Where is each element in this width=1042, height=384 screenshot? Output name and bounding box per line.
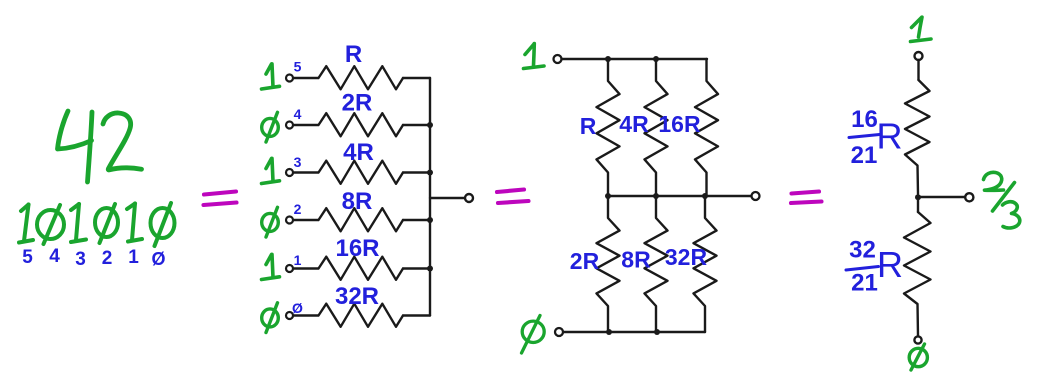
output terminal (circuit 3): [965, 193, 973, 201]
junction dot mid rail R/2R: [605, 193, 611, 199]
output bus wire (circuit 1): [429, 78, 431, 316]
binary bit2 digit 0 (slashed): [95, 204, 118, 243]
resistor 4R (circuit 2): [645, 59, 668, 196]
wire top terminal to resistor 16/21R: [917, 60, 919, 80]
fraction 32/21 bar: [846, 267, 879, 271]
junction dot bus row 3: [427, 170, 433, 176]
svg-text:2: 2: [102, 248, 113, 269]
input terminal pin &#216;: [286, 312, 293, 319]
fraction 16/21 numerator: [851, 106, 878, 133]
label R upper (circuit 3): [877, 116, 903, 157]
resistor 2R (circuit 2): [597, 196, 620, 332]
wire resistor 32R to output bus: [403, 314, 430, 316]
wire pin 3 to resistor 4R: [293, 171, 318, 173]
wire resistor 2R to output bus: [403, 124, 430, 126]
junction dot output node (circuit 3): [915, 194, 921, 200]
label 16R: [335, 235, 379, 262]
resistor 32/21 R: [904, 212, 931, 336]
bit index label 5: [22, 247, 33, 268]
svg-text:Ø: Ø: [292, 300, 303, 316]
label 16R (circuit 2): [658, 111, 701, 137]
bottom rail wire (circuit 2): [563, 331, 705, 333]
binary bit5 digit 1: [19, 205, 33, 243]
svg-text:16R: 16R: [658, 111, 701, 137]
resistor 8R (circuit 2): [645, 196, 668, 332]
bottom terminal (circuit 2): [555, 328, 563, 336]
resistor R (circuit 2): [597, 59, 620, 196]
wire resistor R to output bus: [403, 77, 430, 79]
wire output node to resistor 32/21R: [917, 197, 919, 212]
resistor 16R (circuit 2): [695, 59, 718, 196]
label 32R (circuit 2): [665, 244, 708, 270]
equals sign 1: [204, 192, 237, 206]
junction dot mid rail 16R/32R: [702, 193, 708, 199]
svg-text:R: R: [877, 116, 903, 157]
junction dot bus row 2: [427, 217, 433, 223]
bottom terminal (circuit 3): [914, 336, 921, 343]
equals sign 2: [497, 190, 529, 204]
resistor 8R: [319, 208, 404, 231]
label 4R: [343, 139, 374, 166]
input terminal pin 3: [286, 169, 293, 176]
wire resistor 8R to output bus: [403, 219, 430, 221]
resistor 32R (circuit 2): [694, 196, 717, 332]
label R lower (circuit 3): [877, 244, 903, 285]
bit index label 1: [128, 247, 139, 268]
svg-text:32R: 32R: [665, 244, 708, 270]
input terminal pin 4: [286, 122, 293, 129]
node 1 label (circuit 3): [911, 17, 932, 41]
fraction 32/21 numerator: [849, 237, 876, 264]
output terminal (circuit 2): [752, 192, 760, 200]
svg-text:4: 4: [49, 246, 60, 267]
decimal value 42 (green handwriting): [58, 111, 142, 182]
svg-text:2R: 2R: [342, 90, 373, 117]
bit index label 3: [75, 249, 86, 270]
bit index label 0: [151, 249, 165, 269]
label 4R (circuit 2): [619, 111, 649, 137]
svg-text:R: R: [580, 113, 597, 139]
junction dot bus row 4: [427, 122, 433, 128]
top terminal (circuit 2): [554, 55, 562, 63]
binary bit1 digit 1: [127, 204, 142, 242]
svg-text:32R: 32R: [335, 283, 379, 310]
pin number 1: [294, 252, 302, 268]
node 1 label (circuit 2): [524, 44, 545, 69]
svg-text:21: 21: [851, 142, 878, 169]
bit index label 2: [102, 248, 113, 269]
junction dot bottom rail 2R: [606, 329, 612, 335]
bit index label 4: [49, 246, 60, 267]
input bit label 1 (row pin 3): [262, 158, 280, 183]
wire resistor 16R to output bus: [403, 267, 430, 269]
wire pin 1 to resistor 16R: [293, 267, 318, 269]
top rail wire (circuit 2): [562, 58, 708, 60]
wire pin 4 to resistor 2R: [293, 124, 318, 126]
svg-text:8R: 8R: [621, 247, 651, 273]
resistor 16/21 R: [905, 80, 930, 194]
pin number 5: [294, 59, 302, 75]
output wire (circuit 1): [430, 197, 465, 199]
svg-text:21: 21: [851, 270, 878, 297]
fraction 16/21 denominator: [851, 142, 878, 169]
svg-text:2: 2: [294, 201, 302, 217]
output value 2/3 (green): [984, 172, 1020, 228]
svg-text:Ø: Ø: [151, 249, 165, 269]
svg-text:4: 4: [294, 106, 302, 122]
middle rail wire (circuit 2): [608, 195, 751, 197]
input bit label 0 (row pin &#216;): [262, 303, 279, 333]
label 8R (circuit 2): [621, 247, 651, 273]
wire resistor 4R to output bus: [403, 171, 430, 173]
resistor 2R: [319, 113, 404, 136]
svg-text:32: 32: [849, 237, 876, 264]
wire pin &#216; to resistor 32R: [293, 314, 318, 316]
junction dot bus row 1: [427, 266, 433, 272]
svg-text:1: 1: [294, 252, 302, 268]
svg-text:5: 5: [22, 247, 33, 268]
resistor 4R: [319, 161, 404, 184]
wire pin 5 to resistor R: [293, 77, 318, 79]
node 0 label (circuit 2): [522, 316, 545, 354]
junction dot mid rail 4R/8R: [653, 193, 659, 199]
wire pin 2 to resistor 8R: [293, 219, 318, 221]
label R: [345, 41, 362, 68]
binary bit3 digit 1: [71, 204, 86, 242]
svg-text:R: R: [345, 41, 362, 68]
svg-text:4R: 4R: [619, 111, 649, 137]
node 0 label (circuit 3): [909, 344, 927, 370]
pin number 3: [294, 154, 302, 170]
input terminal pin 2: [286, 217, 293, 224]
svg-text:4R: 4R: [343, 139, 374, 166]
fraction 32/21 denominator: [851, 270, 878, 297]
svg-text:16: 16: [851, 106, 878, 133]
output wire (circuit 3): [918, 196, 964, 198]
resistor R: [319, 66, 404, 89]
svg-text:5: 5: [294, 59, 302, 75]
input bit label 0 (row pin 2): [262, 207, 279, 237]
input bit label 1 (row pin 5): [262, 64, 280, 89]
svg-text:1: 1: [128, 247, 139, 268]
fraction 16/21 bar: [849, 135, 880, 138]
input terminal pin 5: [286, 75, 293, 82]
junction dot top rail R: [605, 56, 611, 62]
output terminal (circuit 1): [465, 194, 473, 202]
svg-text:R: R: [877, 244, 903, 285]
label 2R (circuit 2): [570, 248, 600, 274]
label 8R: [342, 188, 373, 215]
binary bit0 digit 0 (slashed): [151, 203, 175, 246]
svg-text:16R: 16R: [335, 235, 379, 262]
junction dot bottom rail 8R: [654, 329, 660, 335]
input bit label 1 (row pin 1): [262, 254, 280, 279]
svg-text:3: 3: [75, 249, 86, 270]
input terminal pin 1: [286, 265, 293, 272]
resistor 16R: [319, 257, 404, 280]
svg-text:3: 3: [294, 154, 302, 170]
svg-text:8R: 8R: [342, 188, 373, 215]
junction dot top rail 4R: [653, 56, 659, 62]
equals sign 3: [791, 192, 822, 204]
label 2R: [342, 90, 373, 117]
label 32R: [335, 283, 379, 310]
svg-text:2R: 2R: [570, 248, 600, 274]
resistor 32R: [319, 304, 404, 327]
pin number 2: [294, 201, 302, 217]
pin number &#216;: [292, 300, 303, 316]
top terminal (circuit 3): [915, 52, 923, 60]
pin number 4: [294, 106, 302, 122]
label R (circuit 2): [580, 113, 597, 139]
binary bit4 digit 0 (slashed): [37, 205, 64, 244]
input bit label 0 (row pin 4): [262, 112, 279, 142]
